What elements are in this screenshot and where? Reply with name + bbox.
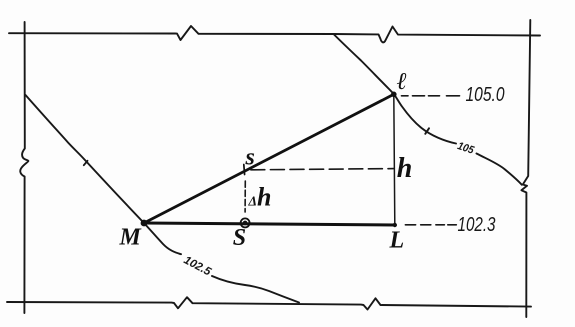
contour 102.5 upper segment (left border to M) [26,95,144,223]
label S [233,225,246,251]
dashed leader line L to 102.3 [405,224,456,226]
label delta h [248,183,272,212]
thick sight line M-l [144,94,394,223]
border left [20,22,28,313]
contour 105 upper segment (top border to l) [334,34,394,94]
svg-text:s: s [245,145,255,171]
thin vertical line l-L [394,94,395,225]
label 105.0 [466,84,505,106]
label l (script ell) [397,69,407,95]
svg-text:S: S [233,225,246,251]
label 102.5 on contour [182,254,214,278]
label M [119,225,143,251]
svg-text:105.0: 105.0 [466,84,505,106]
contour 105 lower segment (label to right border) [477,154,522,185]
label L [389,227,405,253]
slope tick on contour 102.5 [84,161,88,165]
point M [141,220,148,227]
border top [9,26,540,42]
point s tick on sight line [243,165,246,175]
point l [391,92,397,98]
svg-text:L: L [389,227,405,253]
svg-text:M: M [119,225,143,251]
dashed leader line l to 105.0 [402,95,464,97]
svg-text:h: h [257,183,271,212]
dashed vertical line s to S (delta h) [244,181,246,212]
contour 102.5 segment M to label [144,223,182,255]
dashed horizontal line s to h [251,169,394,170]
point S (circled dot) [241,218,250,227]
thick measured line M-L [144,223,395,225]
contour 102.5 lower segment (label to bottom border) [212,276,299,303]
label 102.3 [458,214,496,236]
svg-text:102.3: 102.3 [458,214,496,236]
label h [397,153,413,184]
svg-text:102.5: 102.5 [182,254,214,278]
svg-text:h: h [397,153,413,184]
contour 105 middle segment (l to label) [394,94,456,144]
svg-text:Δ: Δ [248,194,257,209]
slope tick on contour 105 [425,128,429,134]
svg-text:ℓ: ℓ [397,69,407,95]
label 105 on contour [456,140,476,157]
border bottom [7,297,531,309]
svg-text:105: 105 [456,140,476,157]
border right [521,20,530,317]
point L [393,223,397,227]
label s [245,145,255,171]
